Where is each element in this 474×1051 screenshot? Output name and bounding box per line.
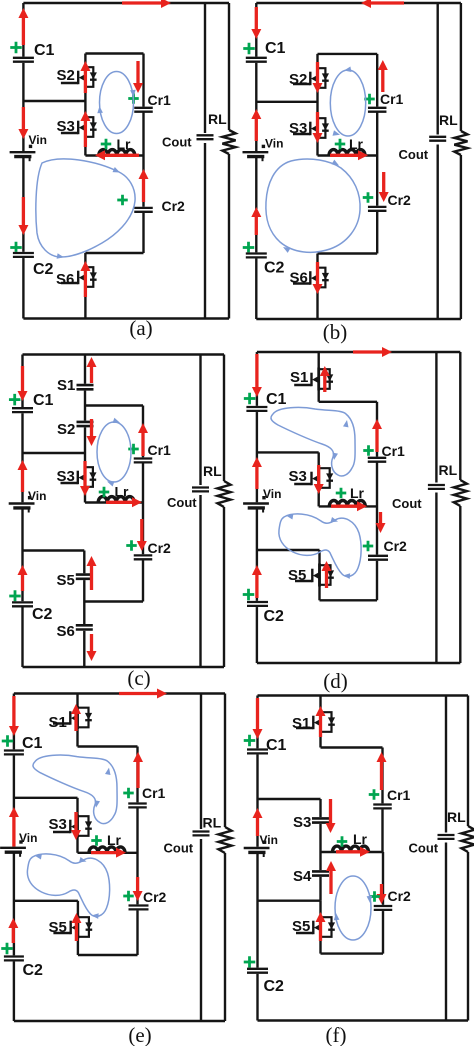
svg-text:RL: RL (203, 815, 222, 831)
switch S2 open (77, 421, 94, 428)
switch S4 open (312, 870, 329, 877)
polarity + of Cr1 (364, 94, 375, 105)
polarity + of Cr1 (369, 789, 380, 800)
transistor S3 (293, 117, 329, 140)
current arrow through S2 up (80, 61, 90, 93)
wire top rail (23, 2, 229, 4)
capacitor Cr1 (368, 107, 387, 113)
polarity + of Lr (337, 836, 348, 847)
svg-text:Cr1: Cr1 (148, 92, 172, 108)
current arrow top rail right (119, 689, 167, 699)
current arrow to junction up (253, 808, 263, 836)
wire switch column (316, 54, 318, 156)
current arrow to Cr2 down (379, 172, 389, 202)
svg-text:RL: RL (439, 462, 458, 478)
transistor S2 (61, 66, 97, 89)
current arrow through S5 up (316, 912, 326, 941)
current arrow to Cr2 down (377, 884, 387, 904)
wire S3 column (76, 798, 78, 853)
upper current loop (33, 755, 117, 824)
wire S5 column (318, 550, 320, 600)
svg-text:S3: S3 (289, 120, 307, 137)
svg-text:S3: S3 (49, 816, 67, 833)
wire RL column bottom (459, 506, 461, 663)
svg-text:S5: S5 (292, 918, 310, 935)
wire S5 column (83, 551, 85, 668)
current arrow into Vin down (18, 107, 28, 139)
wire S1 bottom (321, 746, 383, 748)
capacitor C2 (13, 252, 34, 258)
inductor Lr (329, 501, 365, 507)
switch S5 open (76, 573, 93, 580)
svg-text:S2: S2 (57, 421, 75, 438)
current arrow left rail up (252, 565, 262, 598)
capacitor Cr2 (368, 555, 388, 561)
transistor S1 (296, 711, 335, 734)
svg-text:S6: S6 (290, 270, 308, 287)
panel (c) converter mode 3 (9, 355, 231, 691)
upper current loop (271, 407, 355, 476)
wire S1 bottom (319, 401, 377, 403)
wire Lr bottom (319, 505, 377, 507)
polarity + of C1 (9, 394, 21, 406)
svg-text:Cr1: Cr1 (380, 91, 404, 107)
switch S1 open (77, 384, 94, 391)
current arrow through S3 down (71, 812, 81, 840)
current arrow through S5 up (322, 561, 332, 588)
capacitor C1 (12, 407, 33, 413)
svg-text:Cout: Cout (399, 147, 429, 162)
current arrow through S3 down (313, 112, 323, 143)
current arrow to Cr2 down (376, 512, 386, 533)
svg-text:Cr2: Cr2 (384, 538, 408, 554)
wire S5 junction (23, 549, 85, 551)
polarity + of Cr1 (128, 444, 139, 455)
wire mid junction (257, 451, 319, 453)
current arrow left rail down (253, 698, 263, 739)
current arrow through S3 up (80, 111, 90, 147)
current arrow to Cr1 down (133, 61, 143, 93)
current arrow to Cr1 up (133, 752, 143, 788)
current arrow to Cr2 down (133, 877, 143, 901)
wire RL column top (459, 352, 461, 480)
main current loop (36, 159, 135, 259)
resonant loop arrow (box) (97, 72, 135, 134)
current arrow through Lr left (95, 150, 139, 160)
transistor S6 (61, 266, 97, 289)
svg-text:Cr1: Cr1 (142, 785, 166, 801)
svg-text:C1: C1 (34, 42, 55, 59)
resonant loop arrow (334, 876, 372, 940)
current arrow at S2 down (87, 419, 97, 446)
wire Lr bottom (318, 154, 378, 156)
polarity + of Lr (91, 835, 102, 846)
wire mid junction (14, 797, 78, 799)
wire box top (85, 404, 143, 406)
current arrow at S3 down (326, 799, 336, 833)
wire left rail (22, 3, 24, 319)
transistor S1 (294, 368, 333, 391)
current arrow to Cr2 up (139, 169, 149, 202)
transistor S3 (61, 116, 97, 139)
transistor S5 (295, 564, 334, 587)
wire Cr1 column (136, 747, 138, 804)
svg-text:S3: S3 (57, 118, 75, 135)
svg-text:(c): (c) (127, 666, 150, 690)
polarity + of Lr (101, 139, 112, 150)
svg-text:Vin: Vin (260, 833, 278, 847)
svg-text:Cr1: Cr1 (148, 442, 172, 458)
current arrow to junction up (252, 457, 262, 489)
svg-text:S1: S1 (290, 369, 308, 386)
source Vin (9, 496, 35, 513)
transistor S2 (293, 67, 329, 90)
wire top rail (258, 694, 469, 696)
svg-text:Cout: Cout (392, 496, 422, 511)
svg-text:(f): (f) (326, 1023, 347, 1046)
wire Cout column (199, 355, 201, 668)
wire Cout column (200, 694, 202, 1022)
svg-text:Cout: Cout (409, 841, 439, 856)
svg-text:S1: S1 (292, 715, 310, 732)
wire top rail (14, 692, 225, 694)
wire bottom rail (23, 317, 229, 319)
resistor RL (222, 130, 235, 154)
svg-text:Cout: Cout (167, 495, 197, 510)
wire mid junction (256, 101, 317, 103)
wire Cout column (204, 3, 206, 319)
wire Cout column (445, 696, 447, 1021)
svg-text:Cr2: Cr2 (162, 198, 186, 214)
svg-text:C1: C1 (265, 40, 286, 57)
resistor RL (454, 131, 467, 155)
wire S3 column (318, 452, 320, 506)
capacitor Cr2 (374, 905, 393, 911)
polarity + of C2 (1, 943, 13, 955)
capacitor Cr1 (368, 457, 387, 463)
current arrow through Lr right (336, 847, 370, 857)
wire S5 bottom (321, 952, 384, 954)
wire S1 column (84, 355, 86, 454)
capacitor Cr2 (129, 904, 149, 910)
wire bottom rail (14, 1020, 225, 1022)
svg-text:S5: S5 (57, 572, 75, 589)
source Vin (10, 145, 36, 162)
svg-text:S3: S3 (289, 468, 307, 485)
svg-text:C1: C1 (266, 391, 287, 408)
wire S5 column (319, 901, 321, 954)
polarity + of Lr (336, 488, 347, 499)
svg-text:S5: S5 (49, 919, 67, 936)
wire bottom rail (256, 318, 461, 320)
svg-text:S4: S4 (293, 868, 312, 885)
wire S5 column (77, 901, 79, 955)
wire Cr1 column (142, 406, 144, 459)
capacitor C2 (247, 601, 268, 607)
current arrow left rail down (9, 696, 19, 736)
svg-text:(b): (b) (323, 320, 348, 344)
current arrow to Cr1 up (372, 419, 382, 452)
svg-text:S5: S5 (288, 567, 306, 584)
wire S4 junction (258, 900, 321, 902)
svg-text:RL: RL (203, 463, 222, 479)
wire S4 column (319, 852, 321, 901)
polarity + of C1 (243, 43, 255, 55)
capacitor C1 (4, 749, 24, 755)
svg-text:RL: RL (439, 112, 458, 128)
current arrow through S3 down (314, 465, 324, 494)
wire S6 top (85, 252, 143, 254)
wire left rail (255, 3, 257, 319)
svg-text:Cr2: Cr2 (143, 889, 167, 905)
svg-text:S6: S6 (57, 623, 75, 640)
svg-text:Vin: Vin (263, 487, 281, 501)
wire S5 junction (257, 549, 320, 551)
wire RL column top (228, 3, 230, 130)
wire Cout column (435, 352, 437, 663)
svg-text:C2: C2 (264, 978, 285, 995)
polarity + of Cr2 (369, 891, 380, 902)
wire Cr1 column (381, 748, 383, 805)
svg-text:Cr2: Cr2 (148, 540, 172, 556)
panel (a) converter mode 1 (10, 0, 236, 340)
wire Lr bottom (78, 852, 138, 854)
wire Cr1 column (376, 54, 378, 108)
current arrow through S1 up (316, 706, 326, 737)
current arrow through S6 down (313, 262, 323, 294)
svg-text:Cr1: Cr1 (387, 787, 411, 803)
svg-text:Lr: Lr (350, 485, 365, 501)
inductor Lr (333, 846, 369, 852)
wire Cr2 column (142, 463, 144, 602)
wire box top (318, 53, 378, 55)
switch S3 open (312, 817, 329, 824)
source Vin (244, 841, 270, 858)
wire mid junction (23, 452, 86, 454)
wire left rail (13, 694, 15, 1022)
switch S6 open (76, 624, 93, 631)
svg-text:Cr1: Cr1 (382, 443, 406, 459)
wire S5 bottom (320, 599, 378, 601)
polarity + of Lr (335, 139, 346, 150)
current arrow to Cr1 up (138, 423, 148, 456)
capacitor C2 (246, 252, 267, 258)
svg-text:C2: C2 (32, 606, 53, 623)
svg-text:C2: C2 (33, 261, 54, 278)
current arrow to junction up (9, 807, 19, 851)
transistor S3 (61, 466, 97, 489)
wire S5 bottom (78, 954, 138, 956)
polarity + of C2 (243, 242, 255, 254)
wire Cr2 column (376, 112, 378, 254)
wire top rail (23, 353, 225, 355)
svg-text:S1: S1 (57, 377, 75, 394)
wire Lr bottom (85, 501, 143, 503)
capacitor C2 (12, 601, 33, 607)
panel (f) converter mode 6 (244, 696, 474, 1048)
wire Cr2 column (382, 852, 384, 954)
polarity + of Cr2 (123, 891, 134, 902)
transistor S5 (53, 916, 92, 939)
wire top rail (256, 2, 461, 4)
svg-text:S6: S6 (56, 271, 74, 288)
capacitor C1 (13, 57, 34, 63)
current arrow left rail down (18, 366, 28, 401)
polarity + of C1 (2, 735, 14, 747)
wire Cr1 column (376, 402, 378, 458)
source Vin (243, 145, 269, 162)
wire Cr1 column (142, 54, 144, 108)
polarity + of C1 (244, 735, 256, 747)
wire RL column top (223, 355, 225, 482)
wire left rail (21, 355, 23, 668)
wire Cr2 column (376, 462, 378, 601)
svg-text:RL: RL (447, 809, 466, 825)
inductor Lr (89, 847, 125, 853)
current arrow at S4 up (326, 861, 336, 894)
resistor RL (461, 826, 474, 852)
svg-text:Lr: Lr (115, 484, 130, 500)
svg-text:Cr2: Cr2 (388, 192, 412, 208)
wire RL column bottom (460, 155, 462, 319)
current arrow at S6 down (87, 634, 97, 661)
polarity + of Cr2 (363, 541, 374, 552)
wire RL column bottom (224, 853, 226, 1021)
current arrow at S1 up (87, 357, 97, 383)
capacitor Cout (193, 829, 211, 839)
polarity + of C2 (10, 242, 22, 254)
polarity + of Cr1 (363, 445, 374, 456)
wire Cr2 column (142, 112, 144, 253)
current arrow through Lr right (106, 497, 142, 507)
wire bottom rail (23, 666, 225, 668)
resistor RL (217, 481, 230, 507)
current arrow through S1 up (320, 366, 330, 392)
capacitor C1 (246, 57, 267, 63)
svg-text:S2: S2 (289, 71, 307, 88)
resistor RL (218, 827, 231, 853)
wire Lr bottom (85, 154, 143, 156)
current arrow left rail down (252, 354, 262, 397)
capacitor Cout (429, 135, 447, 145)
svg-text:Lr: Lr (107, 832, 122, 848)
inductor Lr (98, 497, 134, 503)
current arrow left rail down (18, 197, 28, 235)
capacitor Cr1 (134, 107, 153, 113)
transistor S1 (53, 706, 92, 729)
wire S6 top (318, 252, 378, 254)
wire S1 column (76, 694, 78, 747)
transistor S3 (294, 467, 333, 490)
wire RL column bottom (223, 507, 225, 667)
current arrow through S1 up (71, 704, 81, 731)
wire Cout column (437, 3, 439, 319)
capacitor Cr2 (368, 206, 387, 212)
current arrow from Vin up (251, 109, 261, 141)
wire bottom rail (257, 662, 460, 664)
current arrow through S3 down (80, 461, 90, 496)
svg-text:S3: S3 (57, 468, 75, 485)
wire S5 junction (14, 900, 78, 902)
wire mid junction (23, 100, 85, 102)
transistor S3 (53, 815, 92, 838)
svg-text:Cr2: Cr2 (388, 888, 412, 904)
current arrow left rail up (251, 207, 261, 235)
svg-text:(d): (d) (323, 669, 348, 693)
svg-text:Lr: Lr (353, 831, 368, 847)
wire S3 column (319, 799, 321, 852)
polarity + of Cr1 (123, 788, 134, 799)
panel (d) converter mode 4 (243, 347, 467, 693)
current arrow from Cr1 up (378, 60, 388, 92)
current arrow left rail up (18, 565, 28, 591)
wire bottom rail (258, 1019, 469, 1021)
wire RL column top (224, 694, 226, 828)
svg-text:C2: C2 (264, 260, 285, 277)
current arrow to Cr2 down (137, 519, 147, 551)
svg-text:Cout: Cout (164, 841, 194, 856)
wire S3 column (84, 453, 86, 503)
polarity + of C1 (10, 42, 22, 54)
svg-text:Lr: Lr (349, 136, 364, 152)
polarity + of Cr2 (363, 192, 374, 203)
svg-text:S1: S1 (49, 714, 67, 731)
current arrow at S5 up (87, 556, 97, 590)
svg-text:C1: C1 (266, 737, 287, 754)
inductor Lr (329, 150, 365, 156)
resistor RL (454, 480, 467, 506)
wire S1 column (319, 696, 321, 748)
current arrow to junction up (18, 460, 28, 492)
current arrow left rail down (251, 7, 261, 39)
capacitor C2 (247, 968, 268, 974)
svg-text:C1: C1 (33, 392, 54, 409)
resonant loop arrow (box) (330, 67, 365, 137)
wire RL column bottom (467, 852, 469, 1021)
polarity + of Lr (99, 487, 110, 498)
transistor S5 (296, 916, 335, 939)
capacitor Cr1 (134, 457, 153, 463)
current arrow through S2 down (313, 62, 323, 93)
wire RL column top (460, 3, 462, 131)
wire top rail (257, 351, 460, 353)
wire RL column bottom (228, 154, 230, 319)
current arrow through S5 up (71, 913, 81, 941)
main current loop (266, 159, 360, 253)
capacitor Cr1 (373, 803, 392, 809)
current arrow through S6 up (80, 261, 90, 297)
wire S1 bottom (78, 745, 138, 747)
current arrow through Lr right (331, 501, 367, 511)
svg-text:(e): (e) (128, 1023, 151, 1046)
capacitor C2 (4, 955, 24, 961)
svg-text:Lr: Lr (117, 136, 132, 152)
polarity + of Cr1 (128, 93, 139, 104)
wire S1 column (318, 352, 320, 402)
polarity + of C2 (244, 956, 256, 968)
lower current loop (279, 514, 361, 579)
current arrow to Cr1 up (377, 752, 387, 790)
svg-text:S2: S2 (57, 67, 75, 84)
wire RL column top (467, 696, 469, 827)
svg-text:Cout: Cout (162, 135, 192, 150)
wire Cr1 to Lr (381, 808, 383, 852)
capacitor C1 (247, 748, 268, 754)
capacitor Cout (438, 833, 456, 843)
svg-text:C2: C2 (23, 962, 44, 979)
current arrow top rail right (122, 0, 171, 8)
capacitor Cr2 (134, 554, 153, 560)
